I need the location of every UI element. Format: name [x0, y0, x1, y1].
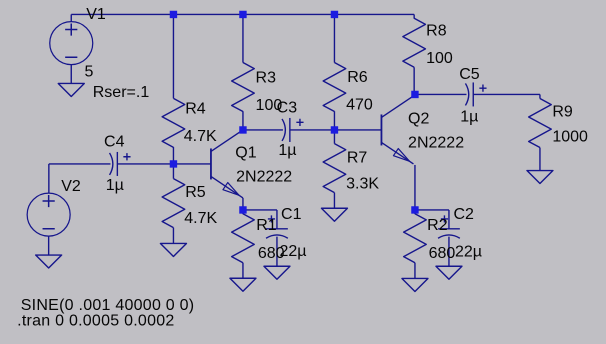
label C3 value: [278, 142, 296, 159]
junction Q1 collector node: [239, 126, 246, 133]
svg-text:Q2: Q2: [408, 111, 429, 128]
wire Q2 emitter node to C2: [415, 209, 449, 211]
label R2 value: [429, 245, 456, 262]
label C2 value: [455, 243, 482, 260]
label V1: [86, 6, 106, 23]
svg-text:C1: C1: [281, 206, 302, 223]
resistor R2: [404, 214, 427, 263]
svg-text:R5: R5: [185, 184, 206, 201]
label V1 Rser: [93, 84, 150, 101]
transistor Q2: [381, 96, 413, 164]
svg-text:1µ: 1µ: [278, 142, 296, 159]
label R6: [347, 69, 368, 86]
wire R2 top stub: [414, 210, 416, 214]
ground below R7: [321, 208, 347, 221]
label SINE directive: [21, 297, 195, 314]
ground below R2: [402, 278, 428, 291]
svg-text:R7: R7: [347, 150, 368, 167]
wire C4 to Q1 base: [117, 163, 211, 165]
capacitor C4: [110, 152, 118, 176]
resistor R6: [323, 63, 346, 112]
svg-text:4.7K: 4.7K: [184, 210, 217, 227]
wire R7 top lead: [333, 130, 335, 144]
transistor Q1: [211, 130, 243, 198]
wire R6 top lead: [333, 14, 335, 62]
wire C5 to R9 corner: [473, 93, 540, 95]
label R9: [552, 103, 573, 120]
svg-text:V1: V1: [86, 6, 106, 23]
C1 plus mark: [268, 215, 275, 222]
svg-text:4.7K: 4.7K: [184, 128, 217, 145]
wire V1 top riser: [70, 14, 72, 22]
C3 plus mark: [296, 119, 303, 126]
wire R9 bottom lead: [539, 148, 541, 171]
ground below R1: [230, 278, 256, 291]
wire R4 top lead: [172, 14, 174, 98]
svg-text:R8: R8: [426, 23, 447, 40]
label C5: [459, 66, 480, 83]
wire C2 top lead: [448, 210, 450, 229]
svg-text:C2: C2: [453, 206, 474, 223]
svg-text:C5: C5: [459, 66, 480, 83]
label R4: [185, 100, 206, 117]
label Q1 type: [236, 169, 292, 186]
resistor R9: [529, 99, 552, 148]
wire top supply rail: [71, 13, 414, 15]
wire V2 riser: [48, 164, 50, 194]
label R7 value: [346, 175, 379, 192]
junction top rail R6: [331, 11, 338, 18]
junction R6 R7 node: [331, 126, 338, 133]
label R8: [426, 23, 447, 40]
wire R9 drop: [539, 94, 541, 98]
label R9 value: [552, 129, 588, 146]
svg-text:470: 470: [346, 96, 373, 113]
wire Q1 emitter node to C1: [243, 209, 277, 211]
svg-text:SINE(0 .001 40000 0 0): SINE(0 .001 40000 0 0): [21, 297, 195, 314]
ground below R9: [527, 171, 553, 184]
label R1: [256, 217, 277, 234]
svg-text:V2: V2: [61, 178, 81, 195]
wire R3 top lead: [242, 14, 244, 62]
ground below C2: [436, 266, 462, 279]
svg-text:22µ: 22µ: [455, 243, 482, 260]
label R3 value: [256, 97, 283, 114]
wire R8 bottom lead: [413, 67, 415, 94]
voltage source V1: [50, 22, 93, 65]
C4 plus mark: [123, 153, 130, 160]
wire R5 bottom lead: [172, 228, 174, 244]
label R5 value: [184, 210, 217, 227]
label Q2: [408, 111, 429, 128]
wire R8 top stub: [413, 14, 415, 18]
junction top rail R3: [239, 11, 246, 18]
wire R2 bottom lead: [414, 263, 416, 279]
wire C1 top lead: [276, 210, 278, 229]
label V2: [61, 178, 81, 195]
wire R3 bottom lead: [242, 111, 244, 130]
svg-text:1µ: 1µ: [106, 177, 124, 194]
label R7: [347, 150, 368, 167]
label C3: [277, 100, 298, 117]
resistor R8: [403, 18, 426, 67]
capacitor C2: [438, 229, 460, 238]
label C4: [104, 133, 125, 150]
capacitor C1: [266, 229, 288, 238]
label R1 value: [258, 245, 285, 262]
label C2: [453, 206, 474, 223]
label R3: [256, 69, 277, 86]
junction Q2 emitter node: [411, 206, 418, 213]
wire Q1 emitter stub: [242, 198, 244, 210]
wire C3 to R6 R7 node to Q2 base: [290, 129, 382, 131]
C5 plus mark: [479, 85, 486, 92]
resistor R7: [323, 144, 346, 193]
label C4 value: [106, 177, 124, 194]
ground below C1: [264, 266, 290, 279]
junction node IN at R4 R5 Q1 base: [170, 160, 177, 167]
wire R8 bottom junction to C5: [415, 93, 467, 95]
label R4 value: [184, 128, 217, 145]
junction top rail R4: [170, 11, 177, 18]
capacitor C5: [465, 82, 473, 106]
label R2: [427, 217, 448, 234]
resistor R3: [232, 63, 255, 112]
svg-text:2N2222: 2N2222: [408, 135, 464, 152]
label tran directive: [17, 312, 174, 329]
wire C2 bottom lead: [448, 237, 450, 267]
wire C1 bottom lead: [276, 237, 278, 267]
wire Q2 emitter stub: [414, 165, 416, 210]
label C1 value: [279, 243, 306, 260]
svg-text:1µ: 1µ: [460, 109, 478, 126]
svg-text:22µ: 22µ: [279, 243, 306, 260]
resistor R1: [232, 214, 255, 263]
svg-text:680: 680: [429, 245, 456, 262]
C2 plus mark: [441, 215, 448, 222]
svg-text:R1: R1: [256, 217, 277, 234]
svg-text:Rser=.1: Rser=.1: [93, 84, 150, 101]
label C1: [281, 206, 302, 223]
svg-text:.tran 0 0.0005 0.0002: .tran 0 0.0005 0.0002: [17, 312, 174, 329]
ground below V2: [36, 255, 62, 268]
capacitor C3: [282, 118, 290, 142]
label V1 value 5: [84, 64, 93, 81]
label Q1: [235, 145, 256, 162]
wire V1 gnd lead: [70, 64, 72, 83]
wire V2 to C4: [49, 163, 111, 165]
wire Q1 collector node to C3: [243, 129, 283, 131]
wire R4 to node IN junction: [172, 147, 174, 164]
svg-text:100: 100: [426, 50, 453, 67]
resistor R5: [162, 179, 185, 228]
ground below V1: [58, 83, 84, 96]
label R6 value: [346, 96, 373, 113]
svg-text:3.3K: 3.3K: [346, 175, 379, 192]
junction R8 Q2 collector node: [411, 91, 418, 98]
label C5 value: [460, 109, 478, 126]
svg-text:5: 5: [84, 64, 93, 81]
label R5: [185, 184, 206, 201]
voltage source V2: [27, 193, 70, 236]
wire R7 bottom lead: [333, 193, 335, 209]
wire R1 top stub: [242, 210, 244, 214]
ground below R5: [160, 243, 186, 256]
svg-text:R2: R2: [427, 217, 448, 234]
svg-text:C4: C4: [104, 133, 125, 150]
svg-text:2N2222: 2N2222: [236, 169, 292, 186]
label Q2 type: [408, 135, 464, 152]
wire R6 bottom lead: [333, 111, 335, 130]
resistor R4: [162, 98, 185, 147]
svg-text:R4: R4: [185, 100, 206, 117]
wire V2 gnd lead: [48, 236, 50, 255]
wire R5 top lead: [172, 164, 174, 179]
svg-text:R3: R3: [256, 69, 277, 86]
svg-text:1000: 1000: [552, 129, 588, 146]
svg-text:R6: R6: [347, 69, 368, 86]
junction Q1 emitter node: [239, 206, 246, 213]
svg-text:R9: R9: [552, 103, 573, 120]
svg-text:Q1: Q1: [235, 145, 256, 162]
wire R1 bottom lead: [242, 263, 244, 279]
label R8 value: [426, 50, 453, 67]
svg-text:C3: C3: [277, 100, 298, 117]
